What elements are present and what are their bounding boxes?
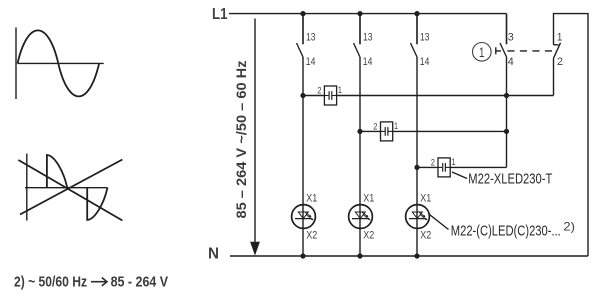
sine waveform figure: vertical axis — [15, 27, 17, 99]
junction L1/branch2 — [357, 11, 362, 16]
svg-text:85 - 264 V: 85 - 264 V — [111, 275, 169, 291]
mechanical linkage dashed — [507, 50, 554, 52]
svg-text:1: 1 — [479, 44, 485, 60]
lamp P2 — [349, 205, 373, 229]
phase-cut waveform figure: vertical axis — [26, 154, 28, 221]
wire: branch1 upper — [302, 14, 304, 45]
voltage range arrow — [254, 19, 256, 244]
svg-text:M22-(C)LED(C)230-...: M22-(C)LED(C)230-... — [451, 223, 561, 240]
svg-text:14: 14 — [363, 56, 373, 68]
wire: N rail — [230, 255, 588, 257]
junction L1/branch3 — [414, 11, 419, 16]
svg-text:2: 2 — [317, 86, 321, 96]
sine waveform figure: horizontal axis — [18, 62, 104, 64]
junction test rail/E2 line — [504, 129, 509, 134]
svg-text:2: 2 — [431, 157, 435, 167]
test contact NC 1-2 mover — [554, 43, 561, 58]
pointer to M22-XLED230-T — [452, 172, 467, 179]
svg-text:1: 1 — [557, 32, 563, 44]
wire: E2 feed — [360, 130, 381, 132]
svg-text:1: 1 — [394, 121, 398, 131]
junction test rail/E1 line — [504, 93, 509, 98]
svg-text:1: 1 — [338, 85, 342, 95]
wire: test contact 3 feed from L1 — [506, 14, 508, 45]
wire: test contact 1 loop to N — [554, 14, 589, 256]
svg-text:85 – 264 V ~/50 – 60 Hz: 85 – 264 V ~/50 – 60 Hz — [233, 61, 249, 219]
junction branch3/LED element E3 — [414, 165, 419, 170]
junction N/branch1 — [300, 253, 305, 258]
actuator id circle 1 — [473, 43, 492, 62]
svg-text:1: 1 — [452, 157, 456, 167]
svg-text:X1: X1 — [420, 192, 431, 204]
svg-text:2: 2 — [373, 121, 377, 131]
svg-text:3: 3 — [508, 32, 514, 44]
svg-text:13: 13 — [306, 32, 315, 44]
wire: branch3 lower — [416, 57, 418, 256]
svg-text:13: 13 — [420, 32, 429, 44]
svg-text:14: 14 — [420, 56, 430, 68]
prohibition cross stroke 1 — [18, 160, 122, 221]
wire: E1 output to test rail — [337, 95, 554, 97]
svg-text:X2: X2 — [420, 229, 431, 241]
lamp P3 — [406, 205, 430, 229]
wire: branch1 lower — [302, 57, 304, 256]
footnote arrow — [91, 281, 106, 283]
phase-cut waveform figure: horizontal axis — [25, 187, 108, 189]
junction branch1/LED element E1 — [300, 93, 305, 98]
svg-text:2) ~ 50/60 Hz: 2) ~ 50/60 Hz — [14, 275, 87, 291]
junction L1/branch1 — [300, 11, 305, 16]
contact S3 13-14 — [411, 14, 418, 57]
svg-text:M22-XLED230-T: M22-XLED230-T — [468, 171, 552, 188]
svg-text:2): 2) — [563, 219, 575, 233]
svg-text:14: 14 — [306, 56, 316, 68]
svg-text:X2: X2 — [306, 229, 317, 241]
contact S2 13-14 — [354, 14, 361, 57]
LED element E2 box — [381, 122, 393, 141]
svg-text:N: N — [208, 245, 219, 262]
wire: test contact 2 down to E-line — [553, 58, 555, 95]
svg-text:L1: L1 — [212, 6, 228, 23]
wire: branch2 lower — [359, 57, 361, 256]
junction branch2/LED element E2 — [357, 129, 362, 134]
test contact NO 3-4 — [500, 14, 507, 57]
contact S1 13-14 — [297, 14, 304, 57]
wire: E2 output to test rail — [393, 130, 507, 132]
svg-text:X2: X2 — [363, 229, 374, 241]
svg-text:2: 2 — [557, 56, 563, 68]
wire: L1 rail — [229, 13, 507, 15]
svg-text:4: 4 — [508, 56, 514, 68]
wire: E1 feed — [303, 95, 324, 97]
phase-cut negative pulse — [87, 188, 107, 220]
svg-text:13: 13 — [363, 32, 372, 44]
junction N/branch3 — [414, 253, 419, 258]
lamp P1 — [292, 205, 316, 229]
prohibition cross stroke 2 — [20, 160, 122, 215]
sine waveform curve — [18, 30, 100, 96]
wire: branch2 upper — [359, 14, 361, 45]
actuator tick — [496, 47, 501, 54]
pointer to M22-(C)LED(C)230 — [430, 215, 449, 230]
svg-text:X1: X1 — [363, 192, 374, 204]
junction N/branch2 — [357, 253, 362, 258]
wire: test rail vertical — [506, 57, 508, 167]
svg-text:X1: X1 — [306, 192, 317, 204]
LED element E1 box — [324, 86, 336, 105]
test contact NC 1-2 seat — [554, 44, 559, 46]
phase-cut positive pulse — [47, 155, 67, 188]
wire: E3 feed — [417, 166, 438, 168]
wire: E3 output to test rail — [450, 166, 507, 168]
LED element E3 box — [438, 158, 450, 177]
wire: branch3 upper — [416, 14, 418, 45]
